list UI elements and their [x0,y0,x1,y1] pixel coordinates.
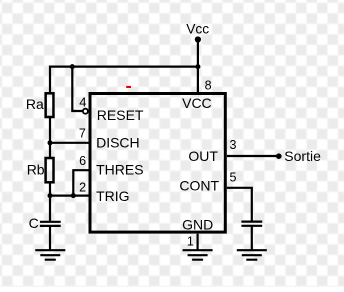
node junction pin8/Vcc [195,64,200,69]
wire GND pin 1 to ground [197,234,199,250]
wire rail Rb to C [49,182,51,221]
svg-text:VCC: VCC [182,95,212,111]
wire TRIG pin 2 [50,195,90,197]
svg-text:GND: GND [182,216,213,232]
node junction RESET branch [70,64,75,69]
svg-text:THRES: THRES [96,162,143,178]
svg-text:CONT: CONT [179,178,219,194]
op-amp U1 555 timer box [90,94,225,233]
wire OUT pin 3 [227,155,279,157]
svg-text:OUT: OUT [188,148,218,164]
inversion bubble pin 4 RESET [83,109,88,114]
resistor Rb [46,158,54,182]
node junction DISCH [48,140,53,145]
wire CONT capacitor to ground [251,226,253,250]
svg-text:4: 4 [79,95,86,110]
wire rail Ra to Rb [49,116,51,159]
wire C to ground [49,226,51,250]
red minus marker [126,86,131,88]
wire THRES pin 6 jog [73,170,89,195]
wire Vcc rail top [50,67,198,94]
svg-text:5: 5 [230,170,237,184]
svg-text:6: 6 [79,154,86,168]
wire CONT pin 5 [227,188,252,222]
svg-text:Vcc: Vcc [186,22,209,37]
svg-text:TRIG: TRIG [96,188,129,204]
wire RESET branch to pin 4 [72,66,82,112]
svg-text:8: 8 [205,78,212,92]
ground under C [35,250,65,260]
capacitor C [40,222,61,226]
resistor Ra [46,93,54,117]
svg-text:C: C [29,215,39,231]
svg-text:Rb: Rb [27,162,45,178]
svg-text:2: 2 [79,180,86,194]
node junction THRES-TRIG [71,193,76,198]
svg-text:DISCH: DISCH [96,135,140,151]
svg-text:Ra: Ra [26,96,44,112]
svg-text:7: 7 [79,126,86,140]
node junction TRIG [48,193,53,198]
output terminal Sortie dot [276,153,282,159]
svg-text:1: 1 [187,235,194,249]
svg-text:Sortie: Sortie [284,148,321,164]
wire DISCH pin 7 [50,142,90,144]
ground under pin 1 [183,250,213,260]
capacitor on CONT [241,222,262,226]
svg-text:RESET: RESET [97,107,144,123]
wire Vcc terminal to pin 8 [197,40,199,94]
svg-text:3: 3 [230,138,237,152]
ground under CONT capacitor [237,250,267,260]
power terminal Vcc dot [195,36,201,42]
